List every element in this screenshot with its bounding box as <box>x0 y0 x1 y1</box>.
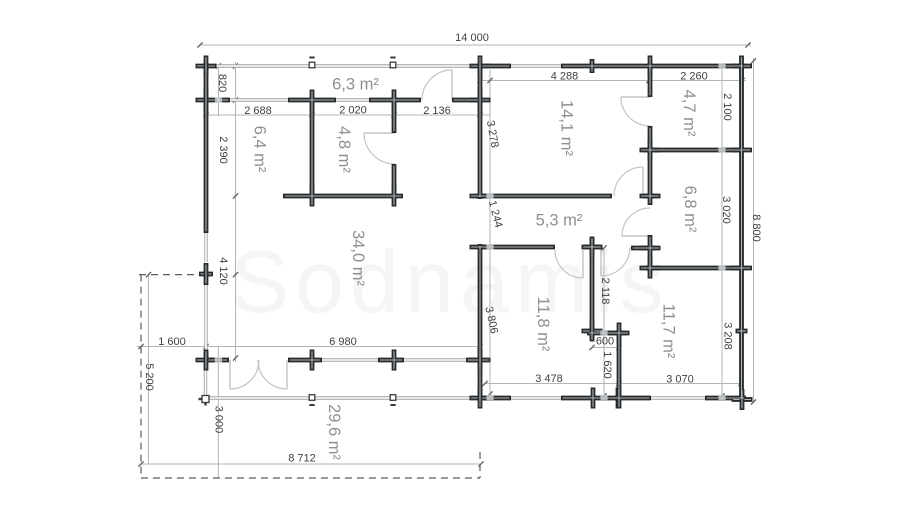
svg-text:3 208: 3 208 <box>722 322 734 350</box>
svg-text:2 118: 2 118 <box>599 278 611 305</box>
svg-text:4,7 m²: 4,7 m² <box>680 90 698 137</box>
svg-text:11,8 m²: 11,8 m² <box>534 297 552 352</box>
svg-text:6,3 m²: 6,3 m² <box>332 75 379 93</box>
svg-text:5,3 m²: 5,3 m² <box>536 212 583 230</box>
svg-text:34,0 m²: 34,0 m² <box>349 230 367 286</box>
svg-text:3 000: 3 000 <box>213 406 225 434</box>
svg-text:600: 600 <box>596 335 614 347</box>
svg-text:1 620: 1 620 <box>601 351 613 379</box>
svg-text:3 020: 3 020 <box>720 196 732 224</box>
svg-text:4 120: 4 120 <box>217 257 229 285</box>
svg-text:8 712: 8 712 <box>288 452 316 464</box>
svg-text:29,6 m²: 29,6 m² <box>325 404 343 460</box>
svg-text:11,7 m²: 11,7 m² <box>660 304 678 359</box>
svg-text:1 600: 1 600 <box>158 336 186 348</box>
svg-text:2 260: 2 260 <box>680 70 708 82</box>
svg-text:6 980: 6 980 <box>329 336 357 348</box>
svg-text:2 136: 2 136 <box>423 105 451 117</box>
svg-text:2 020: 2 020 <box>339 104 367 116</box>
svg-text:6,4 m²: 6,4 m² <box>251 126 269 173</box>
svg-text:4,8 m²: 4,8 m² <box>335 126 353 173</box>
svg-text:14 000: 14 000 <box>455 32 489 44</box>
svg-text:4 288: 4 288 <box>551 70 579 82</box>
svg-text:3 070: 3 070 <box>666 373 694 385</box>
svg-text:2 100: 2 100 <box>721 93 733 121</box>
svg-text:820: 820 <box>216 74 228 92</box>
svg-text:2 390: 2 390 <box>217 136 229 164</box>
svg-text:14,1 m²: 14,1 m² <box>558 100 576 156</box>
svg-text:5 200: 5 200 <box>143 363 155 391</box>
svg-text:8 800: 8 800 <box>750 214 762 242</box>
svg-text:6,8 m²: 6,8 m² <box>681 186 699 233</box>
svg-text:2 688: 2 688 <box>244 105 272 117</box>
svg-text:3 478: 3 478 <box>535 373 563 385</box>
